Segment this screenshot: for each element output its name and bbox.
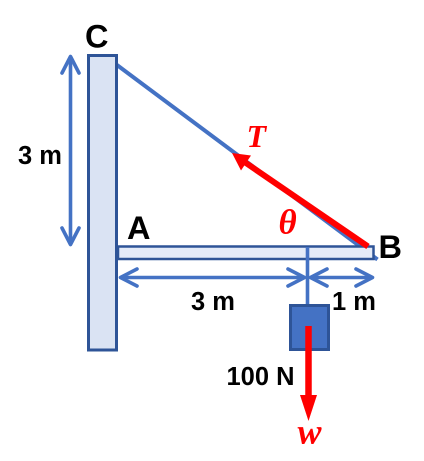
svg-text:T: T xyxy=(247,118,268,154)
svg-text:3 m: 3 m xyxy=(18,142,62,170)
svg-text:3 m: 3 m xyxy=(191,288,235,316)
svg-text:θ: θ xyxy=(279,203,297,242)
svg-text:C: C xyxy=(85,19,108,55)
svg-text:A: A xyxy=(127,210,150,246)
svg-text:w: w xyxy=(298,412,323,452)
svg-text:B: B xyxy=(379,229,402,265)
svg-text:100 N: 100 N xyxy=(227,363,295,391)
svg-text:1 m: 1 m xyxy=(332,288,376,316)
